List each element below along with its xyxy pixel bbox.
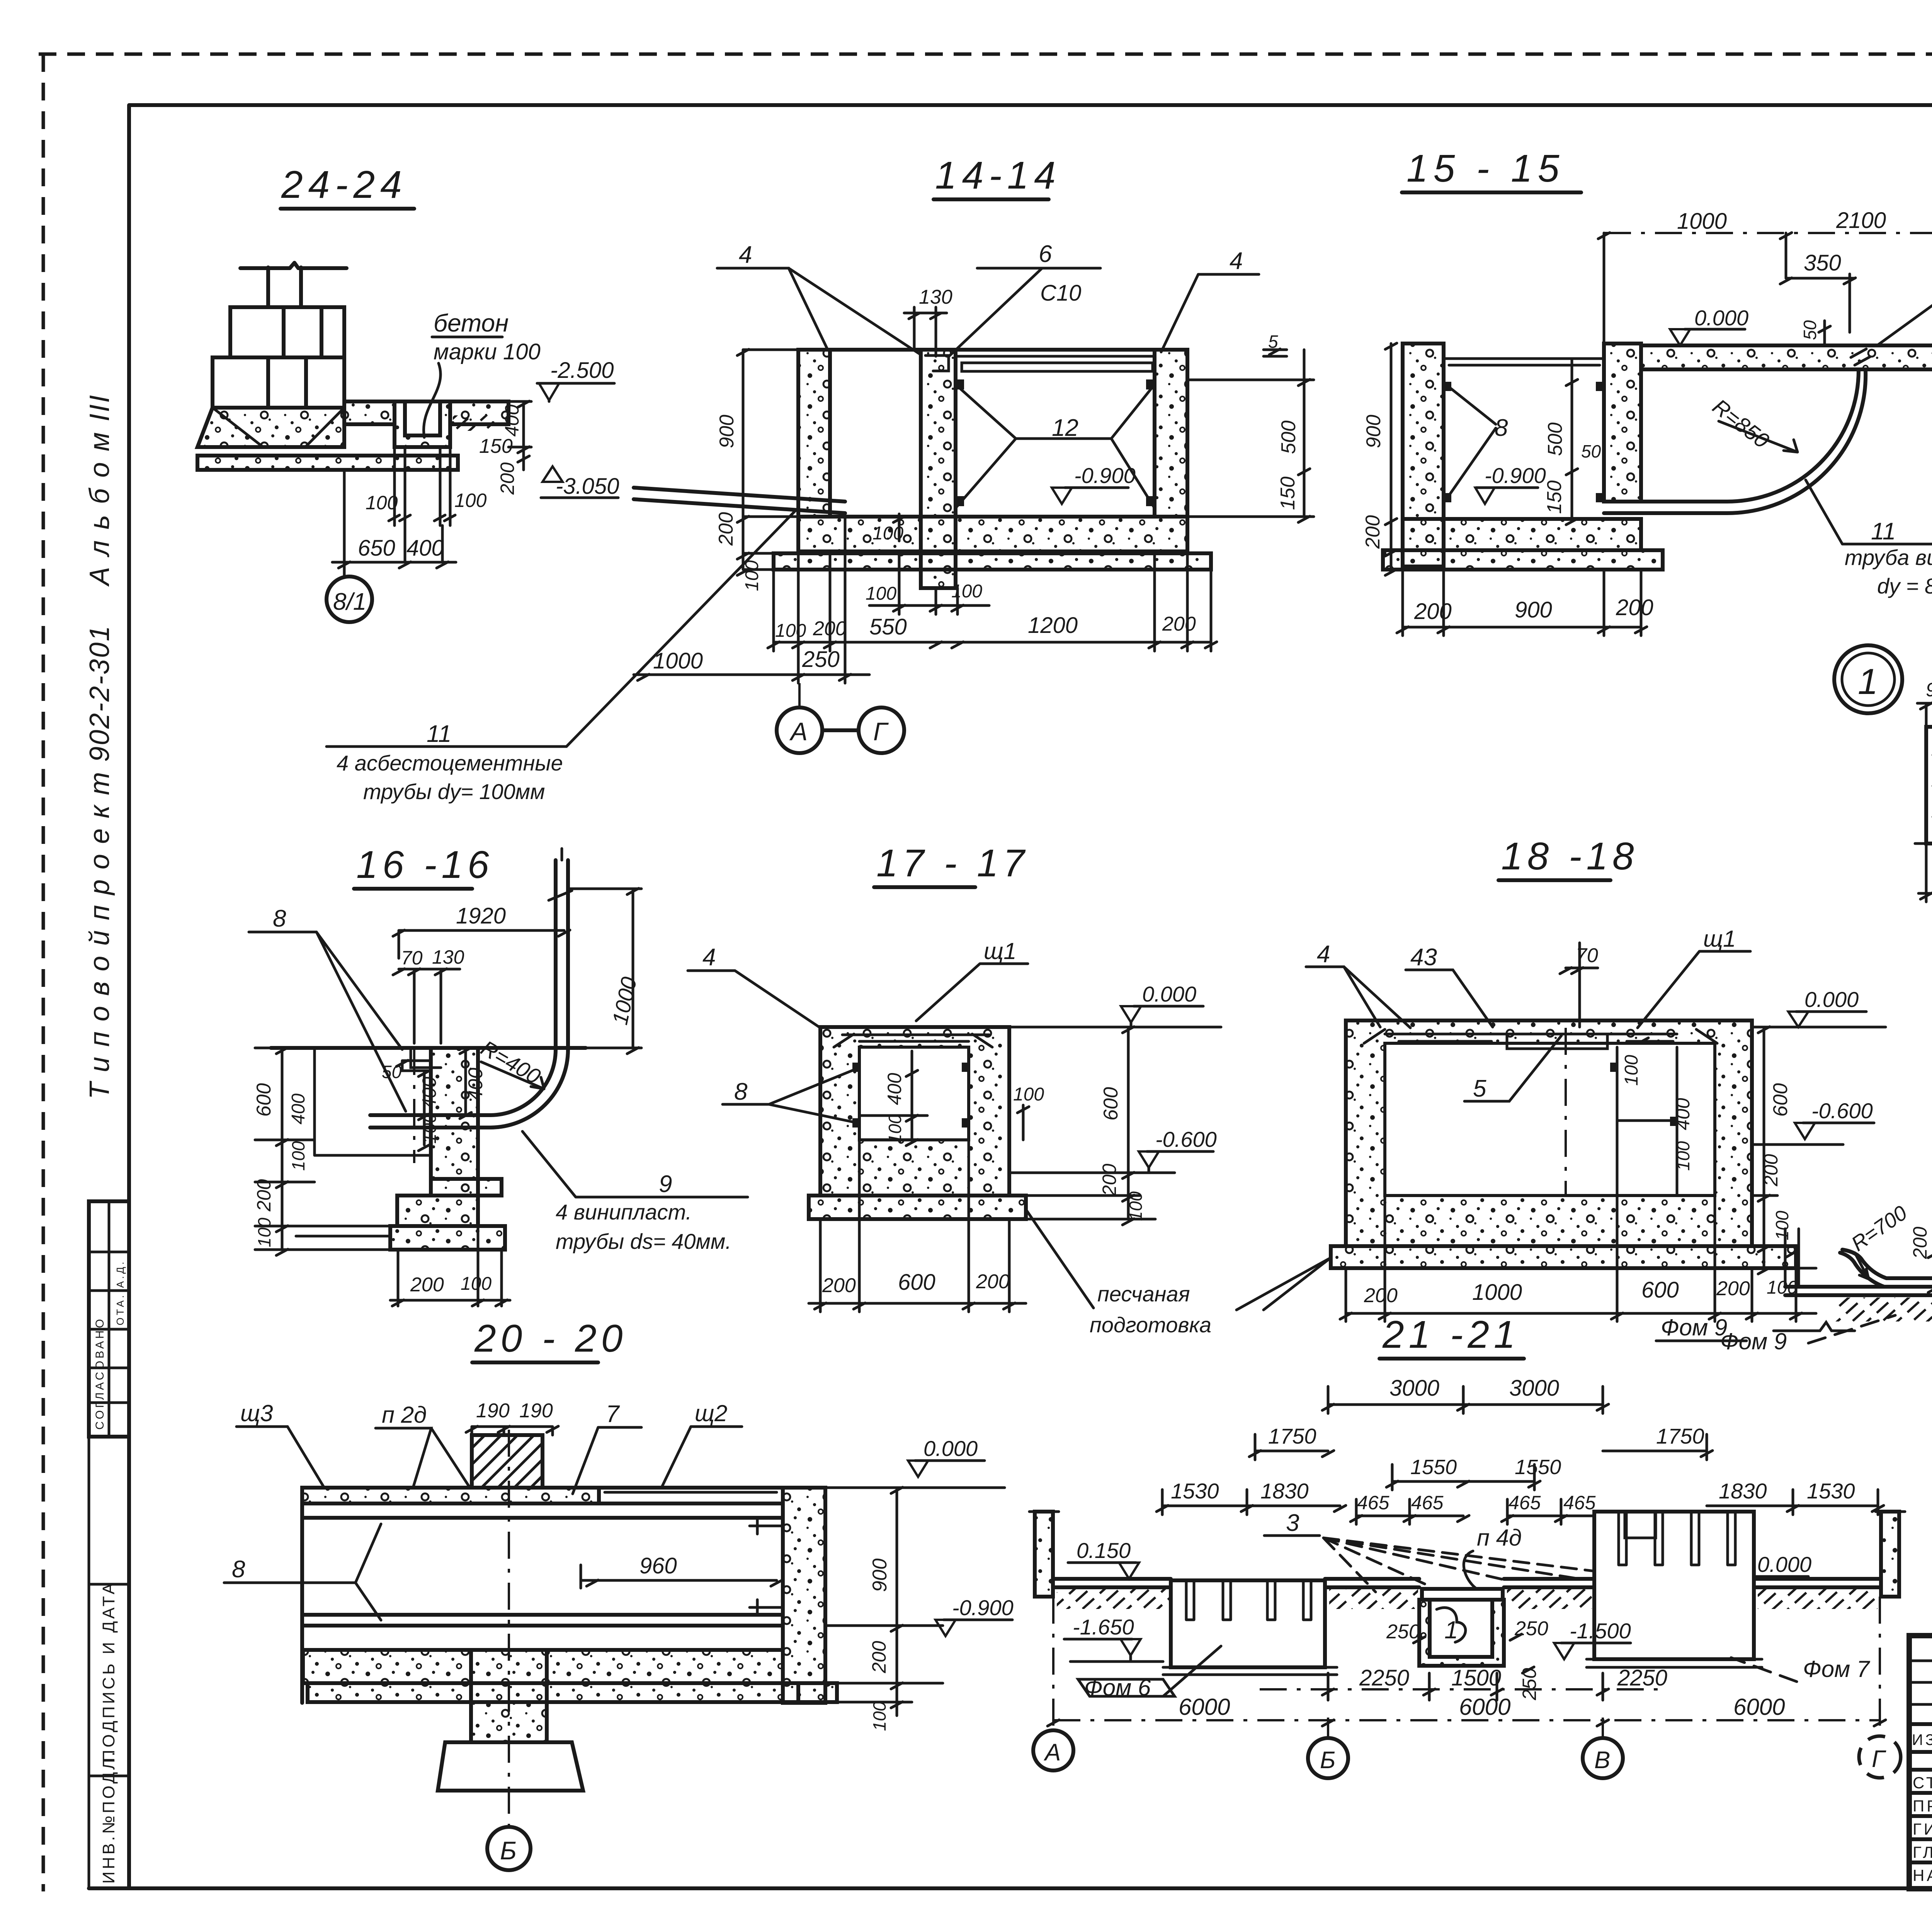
channel body 18-18 (1346, 1020, 1752, 1246)
section title 15-15 (1402, 147, 1581, 192)
svg-text:400: 400 (1672, 1098, 1694, 1130)
svg-text:1: 1 (1858, 661, 1878, 702)
left block base 21-21 (1163, 1667, 1337, 1675)
base slab 20-20 (308, 1683, 837, 1702)
svg-text:250: 250 (1386, 1621, 1420, 1643)
cavity dims 400 100 (859, 1051, 927, 1146)
svg-text:3: 3 (1286, 1510, 1299, 1536)
svg-text:Фом 7: Фом 7 (1803, 1656, 1871, 1682)
svg-text:Г: Г (1872, 1746, 1886, 1772)
dims 1530 1830 left (1156, 1479, 1346, 1515)
leader 8 17-17 (723, 1063, 969, 1128)
svg-text:СТ.ИНЖ: СТ.ИНЖ (1913, 1774, 1932, 1792)
svg-text:90: 90 (1926, 679, 1932, 701)
svg-text:17 - 17: 17 - 17 (876, 842, 1029, 885)
svg-text:СОГЛАСОВАНО: СОГЛАСОВАНО (94, 1317, 106, 1430)
left margin caption project number (84, 625, 115, 1099)
label Фом 7 (1731, 1656, 1871, 1682)
staff rows lines (1909, 1770, 1932, 1862)
right pilaster 21-21 (1876, 1512, 1905, 1597)
svg-text:1750: 1750 (1656, 1424, 1704, 1448)
level -0.600 17-17 (1009, 1127, 1217, 1173)
svg-text:200: 200 (253, 1179, 275, 1212)
svg-text:6: 6 (1039, 241, 1052, 267)
dim 250 rotated pit (1519, 1668, 1540, 1701)
svg-text:Г: Г (873, 717, 889, 746)
leader 6 C10 (949, 241, 1100, 356)
svg-text:100: 100 (951, 581, 982, 602)
outer dashed border top (39, 53, 1932, 56)
svg-text:100: 100 (254, 1218, 274, 1247)
right filter block 21-21 (1594, 1512, 1754, 1659)
svg-text:3000: 3000 (1389, 1376, 1439, 1401)
vinyl pipe curve (1604, 349, 1870, 513)
svg-text:400: 400 (884, 1073, 905, 1105)
svg-text:500: 500 (1544, 422, 1566, 456)
dims 190 190 (466, 1400, 558, 1435)
svg-text:С10: С10 (1040, 281, 1081, 306)
dim 5 small (1264, 332, 1287, 356)
svg-text:1920: 1920 (456, 903, 506, 929)
leader 3 (1264, 1510, 1638, 1592)
detail circle 1 (1834, 645, 1902, 713)
svg-text:-0.600: -0.600 (1155, 1127, 1217, 1151)
top dims 3000 3000 (1322, 1376, 1609, 1413)
floor slab 14-14 (798, 517, 1187, 551)
svg-text:100: 100 (1772, 1211, 1792, 1240)
footing trapezoid 20-20 (438, 1742, 583, 1791)
svg-text:щ1: щ1 (1703, 926, 1736, 952)
svg-text:бетон: бетон (434, 309, 509, 337)
wall bottom break (1915, 837, 1932, 844)
svg-text:п 2д: п 2д (382, 1402, 427, 1428)
svg-text:100: 100 (866, 583, 896, 604)
dim 100 at pipe (872, 514, 905, 544)
left filter block 21-21 (1171, 1580, 1325, 1667)
left dims 900 200 100 (715, 349, 798, 591)
right wall 20-20 (783, 1488, 825, 1703)
leader 4 left (717, 241, 921, 355)
dims 100 100 under trench (366, 447, 487, 526)
svg-text:100: 100 (461, 1274, 492, 1294)
inner dims 100 400 100 18-18 (1621, 1055, 1694, 1171)
brick wall top break line (240, 263, 347, 307)
svg-text:200: 200 (1162, 613, 1196, 635)
svg-text:1830: 1830 (1260, 1479, 1309, 1503)
svg-text:-0.900: -0.900 (1074, 463, 1136, 488)
center pit 21-21 (1419, 1589, 1504, 1666)
svg-text:трубы dѕ= 40мм.: трубы dѕ= 40мм. (556, 1229, 731, 1253)
lid panels 18-18 (1364, 1029, 1717, 1049)
svg-text:2250: 2250 (1359, 1665, 1409, 1690)
dim 400 right of trench (501, 401, 531, 453)
svg-text:8: 8 (232, 1556, 245, 1583)
label п4g 21-21 (1464, 1525, 1522, 1589)
axis circle Г 21-21 (1859, 1597, 1901, 1778)
svg-text:100: 100 (869, 1701, 889, 1731)
left wall 15-15 (1403, 344, 1444, 566)
detail wall strip (1926, 727, 1932, 844)
footing 16-16 (397, 1179, 502, 1226)
svg-text:550: 550 (869, 614, 907, 639)
axis circle A 21-21 (1033, 1597, 1073, 1770)
outer dashed border left (42, 54, 45, 1891)
svg-text:0.000: 0.000 (1142, 982, 1196, 1006)
dims 1750 right (1603, 1424, 1713, 1460)
dim 200 below trench (497, 462, 518, 495)
base slab 18-18 (1264, 1246, 1796, 1310)
svg-text:100: 100 (775, 621, 806, 641)
leader 8 20-20 (224, 1524, 381, 1620)
bottom dim row 100 200 550 1200 200 (768, 551, 1217, 651)
label Фом 6 (1078, 1646, 1221, 1701)
svg-text:ГИП: ГИП (1913, 1820, 1932, 1838)
label R=700 23-23 (1847, 1201, 1911, 1279)
svg-text:150: 150 (1277, 476, 1299, 510)
leader 9 vinyl pipe (522, 1131, 748, 1197)
svg-text:600: 600 (898, 1270, 935, 1295)
svg-text:-0.600: -0.600 (1811, 1099, 1873, 1123)
svg-text:0.000: 0.000 (923, 1436, 978, 1461)
svg-text:-0.900: -0.900 (952, 1595, 1014, 1620)
bottom dims 200 1000 600 200 100 18-18 (1340, 1196, 1816, 1321)
level 0.000 15-15 (1670, 306, 1748, 345)
svg-text:0.150: 0.150 (1077, 1538, 1131, 1563)
svg-text:43: 43 (1410, 944, 1437, 971)
svg-text:4: 4 (739, 241, 752, 268)
section title 16-16 (354, 843, 494, 889)
formwork diagonals and plate 12 (956, 379, 1155, 508)
svg-text:1530: 1530 (1171, 1479, 1219, 1503)
svg-text:4: 4 (1230, 248, 1243, 274)
pit dims 250 250 (1386, 1617, 1548, 1643)
section title 14-14 (934, 154, 1061, 199)
svg-text:11: 11 (427, 721, 451, 747)
left pilaster 21-21 (1029, 1512, 1059, 1597)
ground line 23-23 (1785, 1287, 1932, 1295)
svg-text:-3.050: -3.050 (556, 474, 619, 499)
svg-text:50: 50 (1581, 441, 1601, 461)
svg-text:130: 130 (432, 946, 464, 968)
level -0.900 14-14 (1052, 463, 1136, 504)
dims 6000 row (1048, 1694, 1886, 1726)
svg-text:А: А (1043, 1739, 1061, 1766)
channel body 17-17 (820, 1027, 1009, 1196)
svg-text:200: 200 (868, 1641, 890, 1673)
svg-text:200: 200 (1099, 1163, 1120, 1196)
svg-text:НАЧ.ОТД: НАЧ.ОТД (1913, 1866, 1932, 1884)
sand bedding note (1026, 1209, 1331, 1337)
dim 350 (1780, 250, 1855, 332)
left margin approval table (89, 1201, 129, 1437)
svg-text:песчаная: песчаная (1097, 1282, 1190, 1306)
dims 70 130 (393, 946, 464, 1043)
svg-text:18 -18: 18 -18 (1501, 835, 1639, 878)
svg-text:400: 400 (406, 536, 444, 561)
level 0.000 20-20 (825, 1436, 1005, 1488)
svg-text:465: 465 (1509, 1492, 1541, 1514)
R=850 label (1708, 394, 1798, 453)
svg-text:200: 200 (497, 462, 518, 495)
svg-text:7: 7 (606, 1401, 620, 1427)
svg-text:труба винипласт.: труба винипласт. (1845, 545, 1932, 570)
pier 20-20 (471, 1650, 547, 1742)
left wall 14-14 (798, 350, 830, 517)
svg-text:900: 900 (869, 1558, 891, 1592)
leader 8 right (1877, 265, 1932, 345)
level -0.600 18-18 (1752, 1099, 1874, 1145)
svg-text:100: 100 (420, 1113, 440, 1144)
svg-text:Б: Б (1320, 1747, 1335, 1774)
svg-text:1000: 1000 (1677, 209, 1727, 234)
svg-text:20 - 20: 20 - 20 (474, 1317, 627, 1360)
right dims 600 200 100 18-18 (1752, 1027, 1816, 1274)
svg-text:Б: Б (500, 1836, 517, 1865)
svg-text:100: 100 (1673, 1141, 1693, 1171)
svg-text:100: 100 (1126, 1191, 1146, 1221)
svg-text:200: 200 (715, 512, 737, 546)
svg-text:4 винипласт.: 4 винипласт. (556, 1200, 692, 1224)
interior channel lines 16-16 (315, 1048, 431, 1163)
leader щ1 17-17 (916, 938, 1028, 1021)
svg-text:6000: 6000 (1179, 1694, 1230, 1720)
level mark -2.500 (537, 358, 614, 401)
svg-text:2250: 2250 (1617, 1665, 1667, 1690)
svg-text:1200: 1200 (1028, 613, 1078, 638)
svg-text:200: 200 (1364, 1284, 1398, 1307)
svg-text:100: 100 (288, 1141, 308, 1171)
inner compartment 18-18 (1610, 1047, 1678, 1196)
ground line 16-16 (271, 1046, 586, 1050)
svg-text:подготовка: подготовка (1090, 1313, 1211, 1337)
leader п2д (376, 1402, 470, 1488)
svg-text:1000: 1000 (1472, 1280, 1522, 1305)
svg-text:200: 200 (1362, 515, 1384, 549)
svg-text:200: 200 (822, 1274, 856, 1297)
leader 4 right (1161, 248, 1259, 352)
axis circle 8/1 (327, 577, 372, 622)
svg-text:ИНВ.№ПОДЛ.: ИНВ.№ПОДЛ. (99, 1749, 118, 1884)
dims 1750 left (1249, 1424, 1334, 1460)
svg-text:щ3: щ3 (240, 1400, 273, 1426)
svg-text:200: 200 (976, 1270, 1010, 1293)
dim 1000 rotated (568, 888, 641, 1054)
svg-text:3000: 3000 (1509, 1376, 1559, 1401)
svg-text:ПОДПИСЬ И ДАТА: ПОДПИСЬ И ДАТА (99, 1581, 118, 1762)
center axis dashed 18-18 (1565, 1028, 1567, 1196)
axis circle Г (822, 707, 904, 753)
top slab 15-15 (1641, 340, 1932, 369)
leader щ1 18-18 (1638, 926, 1750, 1028)
level 0.150 (1068, 1538, 1139, 1579)
left margin inventory strip (89, 1437, 129, 1888)
leader 5 center (1464, 1036, 1561, 1102)
right block base 21-21 (1587, 1659, 1762, 1667)
anchor label 8 inside (1444, 382, 1604, 502)
svg-text:4 асбестоцементные: 4 асбестоцементные (337, 751, 563, 775)
svg-text:6000: 6000 (1733, 1694, 1785, 1720)
svg-text:465: 465 (1357, 1492, 1389, 1514)
dim 250 detail (1918, 844, 1932, 902)
right dims 600 200 100 17-17 (1009, 1027, 1155, 1225)
svg-text:200: 200 (813, 617, 847, 640)
top dims 1000 2100 (1598, 208, 1932, 345)
title block revision rows (1909, 1661, 1932, 1752)
ground middle hatch 21-21 (1325, 1579, 1419, 1609)
level mark -3.050 (541, 466, 619, 499)
dim 200 23-23 (1909, 1226, 1932, 1293)
hatched curb block (472, 1435, 543, 1488)
svg-text:960: 960 (639, 1553, 677, 1578)
concrete trench top shelf left (344, 401, 395, 424)
svg-text:400: 400 (288, 1094, 309, 1124)
dims 2250 1500 2250 (1260, 1665, 1667, 1700)
svg-text:-1.650: -1.650 (1073, 1615, 1134, 1639)
R=400 label (477, 1036, 545, 1089)
svg-text:200: 200 (1616, 595, 1653, 620)
middle wall 15-15 (1604, 344, 1641, 502)
svg-text:100: 100 (1621, 1055, 1642, 1086)
section title 18-18 (1498, 835, 1639, 880)
bottom dims 200 600 200 17-17 (809, 1140, 1026, 1312)
svg-text:ОТА. А.Д.: ОТА. А.Д. (114, 1260, 126, 1325)
level 0.000 21-21 (1732, 1552, 1811, 1593)
svg-text:500: 500 (1277, 420, 1300, 454)
svg-text:190: 190 (519, 1400, 553, 1422)
level 0.000 18-18 (1752, 987, 1886, 1027)
svg-text:dу = 80 мм.: dу = 80 мм. (1877, 574, 1932, 598)
svg-text:А л ь б о м III: А л ь б о м III (84, 394, 115, 587)
dims 1830 1530 right (1707, 1479, 1884, 1515)
svg-text:200: 200 (1716, 1277, 1750, 1300)
svg-text:1750: 1750 (1268, 1424, 1316, 1448)
svg-text:600: 600 (253, 1083, 275, 1117)
dims 1550 1550 (1386, 1456, 1561, 1490)
wall footing hatch zone (197, 408, 344, 447)
svg-text:6000: 6000 (1459, 1694, 1510, 1720)
dim 100 right top 17-17 (1013, 1084, 1044, 1140)
level -0.900 20-20 (935, 1595, 1014, 1636)
lid 15-15 (1444, 359, 1604, 365)
leader 11 vinyl pipe (1806, 480, 1932, 598)
left margin caption Album III (84, 394, 115, 587)
dim 400 rotated 16-16 (460, 1048, 487, 1119)
brick wall row 1 (230, 307, 344, 357)
svg-text:4: 4 (702, 944, 716, 971)
svg-text:600: 600 (1769, 1083, 1792, 1117)
lid 17-17 (834, 1034, 992, 1047)
svg-text:п 4д: п 4д (1477, 1525, 1522, 1551)
svg-text:200: 200 (410, 1274, 444, 1296)
svg-text:15 - 15: 15 - 15 (1406, 147, 1565, 190)
base slab 17-17 (809, 1196, 1026, 1219)
dim 1920 (393, 903, 570, 958)
floor 15-15 (1403, 519, 1641, 550)
svg-text:1530: 1530 (1807, 1479, 1855, 1503)
bottom dims 200 100 16-16 (390, 1196, 510, 1306)
svg-text:11: 11 (1871, 518, 1896, 545)
interior channel 20-20 (302, 1488, 783, 1703)
interior dims 500 150 (1543, 359, 1601, 525)
svg-text:100: 100 (454, 490, 487, 511)
right dims 900 200 100 20-20 (825, 1487, 943, 1731)
bottom slab 24-24 (197, 456, 458, 470)
leader 4 17-17 (688, 944, 820, 1028)
svg-text:8: 8 (734, 1078, 748, 1105)
svg-text:21 -21: 21 -21 (1382, 1313, 1520, 1356)
svg-text:ГЛ.СПЕЦ.: ГЛ.СПЕЦ. (1913, 1843, 1932, 1861)
svg-text:1500: 1500 (1451, 1665, 1501, 1690)
base slab 14-14 (774, 553, 1211, 570)
leader 4 18-18 (1306, 941, 1410, 1028)
svg-text:В: В (1594, 1747, 1610, 1774)
right dims 500 150 (1187, 350, 1314, 522)
svg-text:0.000: 0.000 (1757, 1552, 1811, 1577)
lid band 20-20 (302, 1488, 783, 1503)
svg-text:50: 50 (1800, 320, 1820, 340)
svg-text:100: 100 (366, 492, 398, 514)
svg-text:130: 130 (919, 286, 952, 308)
svg-text:400: 400 (501, 404, 523, 437)
svg-text:900: 900 (1362, 415, 1385, 448)
frame bottom line (89, 1886, 1932, 1890)
dim 50 rotated (1800, 320, 1830, 345)
svg-text:200: 200 (1414, 599, 1452, 624)
svg-text:465: 465 (1563, 1492, 1596, 1514)
svg-text:350: 350 (1804, 250, 1841, 276)
svg-text:2100: 2100 (1836, 208, 1886, 233)
header row изм лист докум (1912, 1731, 1932, 1748)
svg-text:100: 100 (1013, 1084, 1044, 1105)
leader 43 (1406, 944, 1493, 1027)
brick wall row 2 (213, 357, 344, 408)
right wall 14-14 (1155, 350, 1187, 517)
svg-text:70: 70 (401, 947, 423, 969)
svg-text:600: 600 (1100, 1087, 1122, 1121)
dim 50 (382, 1060, 408, 1082)
base slab 16-16 (296, 1226, 505, 1250)
svg-text:-2.500: -2.500 (550, 358, 614, 383)
leader щ2 (662, 1400, 742, 1488)
svg-text:24-24: 24-24 (281, 163, 407, 206)
svg-text:5: 5 (1473, 1075, 1486, 1102)
bottom dims 200 900 200 15-15 (1397, 570, 1653, 636)
svg-text:100: 100 (742, 560, 762, 591)
dims 400 100 interior (418, 1070, 440, 1151)
ground hatch segments 23-23 (1835, 1298, 1932, 1321)
note 4 asbestos pipes text (337, 751, 563, 804)
svg-text:-1.500: -1.500 (1570, 1619, 1631, 1643)
svg-text:1550: 1550 (1410, 1456, 1457, 1479)
bottom dim row 100 100 (866, 551, 989, 614)
svg-text:щ2: щ2 (695, 1400, 727, 1426)
middle wall 14-14 (921, 350, 956, 588)
svg-text:190: 190 (476, 1400, 510, 1422)
axis circle Б 21-21 (1308, 1718, 1348, 1778)
section title 20-20 (472, 1317, 627, 1362)
wall 16-16 (411, 1048, 478, 1196)
level -0.900 15-15 (1475, 463, 1546, 504)
section title 17-17 (874, 842, 1029, 887)
svg-text:1: 1 (1444, 1616, 1458, 1644)
svg-text:1000: 1000 (653, 648, 703, 673)
svg-text:1830: 1830 (1719, 1479, 1767, 1503)
leader 8 16-16 (249, 905, 406, 1111)
svg-text:150: 150 (479, 435, 513, 457)
svg-text:-0.900: -0.900 (1485, 463, 1546, 488)
svg-text:650: 650 (358, 536, 395, 561)
svg-text:200: 200 (1760, 1154, 1782, 1187)
